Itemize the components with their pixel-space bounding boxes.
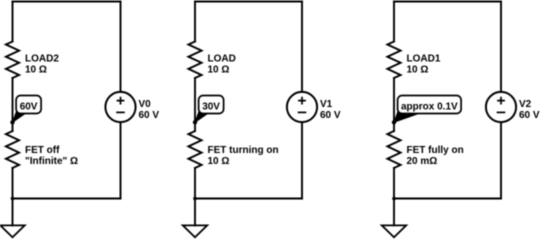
svg-text:60 V: 60 V bbox=[139, 110, 160, 121]
wire left middle loop1 bbox=[12, 78, 14, 131]
svg-text:V1: V1 bbox=[320, 99, 333, 110]
resistor R FET-off bbox=[6, 131, 19, 168]
callout label "60V" loop1 bbox=[10, 96, 41, 125]
wire top loop1 bbox=[13, 1, 121, 3]
junction node loop3 bbox=[392, 197, 396, 201]
wire top loop2 bbox=[195, 1, 302, 3]
callout label "30V" loop2 bbox=[193, 96, 224, 125]
wire right upper loop3 bbox=[500, 2, 502, 92]
wire left upper loop1 bbox=[12, 2, 14, 42]
resistor R LOAD bbox=[188, 42, 201, 79]
svg-text:FET off: FET off bbox=[25, 145, 60, 156]
junction node loop1 bbox=[11, 197, 15, 201]
resistor R FET-turning-on bbox=[188, 131, 201, 168]
callout label "approx 0.1V" loop3 bbox=[392, 96, 461, 125]
wire left lower loop2 bbox=[194, 168, 196, 199]
resistor R LOAD2 bbox=[6, 42, 19, 79]
wire left middle loop2 bbox=[194, 78, 196, 131]
wire ground stub loop2 bbox=[194, 199, 196, 226]
svg-text:FET fully on: FET fully on bbox=[407, 145, 464, 156]
wire left upper loop2 bbox=[194, 2, 196, 42]
svg-text:10 Ω: 10 Ω bbox=[208, 156, 230, 167]
wire left middle loop3 bbox=[393, 78, 395, 131]
wire left upper loop3 bbox=[393, 2, 395, 42]
svg-text:V0: V0 bbox=[139, 99, 152, 110]
svg-text:FET turning on: FET turning on bbox=[208, 145, 279, 156]
svg-text:LOAD2: LOAD2 bbox=[25, 53, 59, 64]
wire right lower loop1 bbox=[120, 122, 122, 198]
svg-text:60 V: 60 V bbox=[519, 110, 540, 121]
svg-text:approx 0.1V: approx 0.1V bbox=[401, 101, 458, 112]
svg-text:LOAD: LOAD bbox=[208, 53, 236, 64]
svg-text:V2: V2 bbox=[519, 99, 532, 110]
wire bottom loop2 bbox=[195, 198, 302, 200]
svg-text:20 mΩ: 20 mΩ bbox=[407, 156, 438, 167]
voltage source V1 bbox=[287, 92, 317, 122]
svg-text:60V: 60V bbox=[20, 101, 38, 112]
wire bottom loop3 bbox=[394, 198, 501, 200]
ground loop2 bbox=[183, 225, 207, 237]
svg-text:60 V: 60 V bbox=[320, 110, 341, 121]
voltage source V2 bbox=[486, 92, 516, 122]
wire right upper loop1 bbox=[120, 2, 122, 92]
junction node loop2 bbox=[193, 197, 197, 201]
svg-text:"Infinite" Ω: "Infinite" Ω bbox=[25, 156, 78, 167]
voltage source V0 bbox=[105, 92, 135, 122]
wire right upper loop2 bbox=[301, 2, 303, 92]
wire top loop3 bbox=[394, 1, 501, 3]
ground loop3 bbox=[382, 225, 406, 237]
svg-text:30V: 30V bbox=[202, 101, 220, 112]
wire bottom loop1 bbox=[13, 198, 121, 200]
resistor R FET-fully-on bbox=[387, 131, 400, 168]
svg-text:10 Ω: 10 Ω bbox=[25, 65, 47, 76]
svg-text:10 Ω: 10 Ω bbox=[407, 65, 429, 76]
wire right lower loop2 bbox=[301, 122, 303, 198]
wire left lower loop1 bbox=[12, 168, 14, 199]
svg-text:LOAD1: LOAD1 bbox=[407, 53, 441, 64]
wire left lower loop3 bbox=[393, 168, 395, 199]
svg-text:10 Ω: 10 Ω bbox=[208, 65, 230, 76]
wire ground stub loop3 bbox=[393, 199, 395, 226]
ground loop1 bbox=[0, 225, 24, 237]
wire ground stub loop1 bbox=[12, 199, 14, 226]
wire right lower loop3 bbox=[500, 122, 502, 198]
resistor R LOAD1 bbox=[387, 42, 400, 79]
